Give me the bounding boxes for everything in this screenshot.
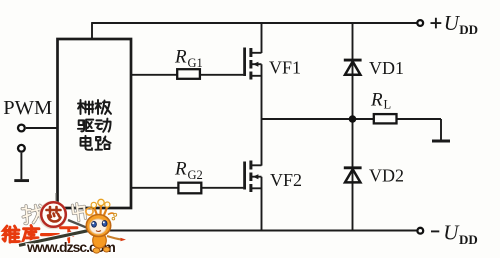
watermark: mascot pencil — [17, 220, 92, 246]
wire bottom rail -UDD — [104, 230, 417, 232]
diode VD2 — [344, 168, 362, 183]
svg-text:R: R — [174, 47, 187, 68]
wire RG1 to VF1 gate — [201, 74, 244, 76]
driver box text line 3 (电路) — [81, 136, 111, 150]
terminal PWM lower circle — [18, 145, 25, 152]
watermark: dzsc.com logo badge char 找 — [22, 204, 43, 224]
svg-text:DD: DD — [459, 232, 478, 247]
wire midpoint node horizontal to RL junction — [262, 118, 353, 120]
diode VD1 — [344, 60, 362, 75]
svg-text:G2: G2 — [188, 168, 203, 182]
terminal -UDD circle — [417, 228, 423, 234]
label -UDD — [431, 230, 439, 232]
wire VF1 source/body down to midpoint node — [252, 64, 262, 119]
wire PWM lower terminal to ground — [20, 153, 22, 180]
svg-text:VD1: VD1 — [369, 58, 404, 78]
wire VF2 source/body down to bottom rail — [252, 177, 262, 231]
svg-text:R: R — [370, 90, 383, 111]
wire RG2 to VF2 gate — [202, 187, 244, 189]
terminal PWM upper circle — [18, 125, 25, 132]
svg-text:G1: G1 — [188, 56, 203, 70]
driver box text line 1 (栅极) — [78, 100, 111, 114]
wire driver box to RG2 — [131, 187, 178, 189]
wire junction to RL — [353, 118, 374, 120]
transistor VF2 — [245, 161, 259, 193]
wire VD1 branch vertical — [352, 23, 354, 119]
driver box text line 2 (驱动) — [78, 119, 111, 132]
svg-text:VF2: VF2 — [270, 170, 302, 190]
terminal +UDD circle — [417, 20, 423, 26]
wire top rail +UDD — [92, 22, 417, 24]
watermark: red circle badge with 芯 — [39, 201, 66, 228]
wire VF2 drain up to midpoint — [252, 119, 262, 166]
svg-text:R: R — [174, 159, 187, 180]
driver box outline — [58, 39, 132, 208]
svg-text:L: L — [384, 98, 392, 112]
label +UDD — [431, 18, 442, 29]
svg-text:U: U — [443, 220, 460, 244]
watermark: red text 维库一下 — [3, 226, 77, 243]
watermark: badge char 片 — [72, 203, 86, 222]
transistor VF1 — [245, 48, 259, 80]
svg-text:VF1: VF1 — [269, 58, 301, 78]
wire VF1 drain to top rail — [252, 23, 262, 53]
resistor RG1 — [177, 69, 200, 79]
wire VD2 branch vertical — [352, 119, 354, 231]
svg-text:PWM: PWM — [3, 97, 52, 119]
resistor RG2 — [178, 183, 201, 194]
watermark: mascot body and head — [86, 199, 126, 253]
watermark: magnifier stem above badge — [55, 193, 57, 203]
node junction dot at RL tap — [349, 115, 357, 123]
svg-text:U: U — [444, 11, 461, 35]
svg-text:VD2: VD2 — [369, 166, 404, 186]
ground bar below PWM lower terminal — [14, 179, 29, 182]
wire driver box to RG1 — [131, 74, 177, 76]
svg-text:DD: DD — [459, 22, 478, 37]
ground bar for RL — [432, 140, 450, 143]
wire RL to ground corner — [397, 119, 441, 140]
resistor RL — [374, 114, 397, 123]
wire stub from top rail down to driver box top — [91, 22, 93, 39]
wire PWM input to driver box — [26, 127, 57, 129]
